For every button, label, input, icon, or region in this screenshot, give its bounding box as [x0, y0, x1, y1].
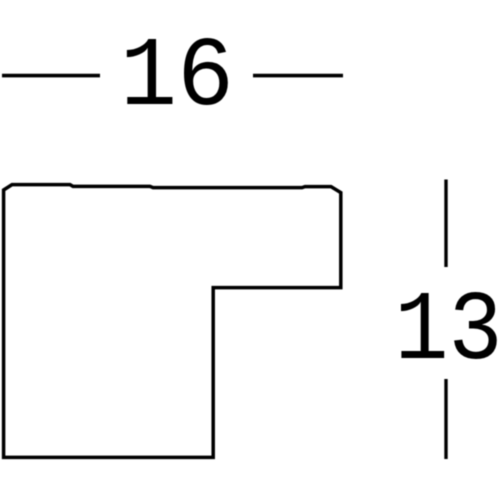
svg-text:16: 16: [120, 23, 234, 134]
svg-text:13: 13: [395, 277, 500, 388]
